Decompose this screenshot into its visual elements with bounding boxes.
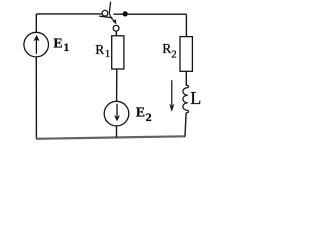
svg-text:R: R	[162, 41, 171, 56]
svg-text:1: 1	[63, 40, 69, 54]
svg-text:1: 1	[105, 48, 111, 60]
svg-text:R: R	[95, 42, 104, 57]
svg-text:E: E	[136, 106, 145, 121]
svg-text:E: E	[53, 37, 62, 52]
svg-text:2: 2	[146, 110, 152, 124]
svg-text:L: L	[190, 88, 201, 108]
svg-text:2: 2	[171, 48, 177, 60]
